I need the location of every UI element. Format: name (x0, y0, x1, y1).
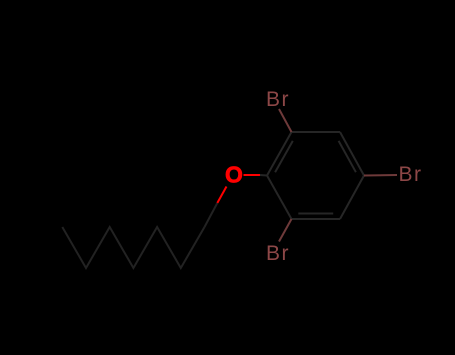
bond C1-C2 (267, 132, 292, 176)
bond C3-C4 (340, 132, 364, 176)
double bond inner C5=C6 (298, 213, 333, 215)
bond O-C1 red half (244, 174, 261, 176)
bond C5-C6 (292, 218, 341, 220)
double bond inner C1=C2 (275, 141, 293, 172)
bond C4-Br (right) (364, 174, 397, 177)
bond C4-C5 (340, 176, 364, 220)
svg-text:Br: Br (266, 88, 290, 111)
bond C2-C3 (292, 131, 341, 133)
svg-text:Br: Br (399, 163, 423, 186)
heptyl chain C1'-C7' (62, 227, 204, 268)
bond O-C1 gray half (260, 174, 267, 177)
bond O-CH2 red half (217, 187, 226, 204)
svg-text:O: O (225, 162, 243, 188)
double bond inner C3=C4 (339, 141, 356, 172)
svg-text:Br: Br (266, 242, 290, 265)
bond O-CH2 gray half (205, 203, 218, 227)
bond C6-Br (bottom) (279, 219, 292, 242)
benzene ring C1-C2-C3-C4-C5-C6 (267, 132, 364, 219)
bond C6-C1 (267, 176, 292, 220)
bond C2-Br (top) (279, 109, 292, 132)
